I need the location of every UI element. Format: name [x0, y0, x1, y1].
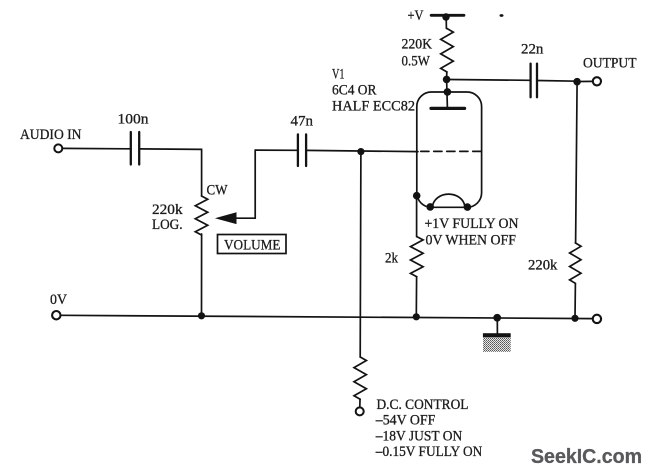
svg-text:–0.15V FULLY ON: –0.15V FULLY ON [375, 444, 483, 460]
resistor R3 2k [411, 237, 424, 277]
ground stem [496, 318, 498, 334]
resistor R4 220k [570, 243, 581, 283]
wire R4 to 0V rail [574, 283, 576, 318]
svg-text:0.5W: 0.5W [402, 54, 431, 70]
wire 0V rail [60, 315, 592, 318]
wire audio-in to C1 [62, 147, 130, 149]
wire grid node to R5 [359, 152, 362, 357]
junction cathode at envelope left [413, 192, 421, 200]
label D.C. CONTROL voltages [375, 397, 483, 460]
power +V bar [431, 14, 464, 17]
svg-text:CW: CW [207, 183, 229, 199]
wire anode node to C3 [450, 79, 530, 82]
svg-text:+V: +V [408, 8, 424, 24]
label +1V FULLY ON / 0V WHEN OFF [425, 216, 519, 249]
junction anode node [443, 76, 451, 84]
grid dashed line of V1 [421, 150, 482, 152]
wire R3 to 0V rail [415, 277, 417, 317]
wire C2 to grid of V1 [306, 150, 418, 151]
wire R2 top lead [445, 17, 447, 29]
svg-text:+1V FULLY ON: +1V FULLY ON [425, 216, 519, 232]
svg-text:AUDIO IN: AUDIO IN [20, 127, 82, 143]
junction pot / 0V rail [198, 312, 205, 319]
ground bar [483, 333, 511, 337]
junction ground / 0V rail [493, 314, 501, 322]
wire cathode to R3 [416, 196, 418, 237]
svg-text:2k: 2k [385, 251, 398, 267]
wire C3 to output node [537, 80, 577, 83]
svg-text:6C4 OR: 6C4 OR [332, 83, 377, 99]
label V1 6C4 OR HALF ECC82 [332, 67, 415, 115]
svg-text:LOG.: LOG. [152, 217, 183, 233]
wire output node to terminal [581, 80, 593, 82]
node AUDIO IN terminal [54, 144, 62, 152]
junction grid wire / DC control branch [357, 148, 364, 155]
svg-text:SeekIC.com: SeekIC.com [531, 446, 642, 468]
wire C1 to pot top [140, 149, 202, 196]
junction +V bar [442, 13, 449, 20]
junction anode lead at envelope [444, 88, 452, 96]
junction output node [573, 78, 581, 86]
svg-text:100n: 100n [118, 112, 150, 128]
svg-text:VOLUME: VOLUME [224, 238, 281, 254]
svg-text:0V: 0V [50, 292, 67, 308]
ink speck [500, 14, 504, 17]
capacitor C2 47n [298, 134, 306, 166]
resistor R5 DC control [354, 357, 366, 399]
resistor R2 220K 0.5W [441, 29, 454, 73]
junction R3 / 0V rail [413, 313, 420, 320]
junction cathode right pin [464, 203, 472, 211]
node DC control terminal [356, 407, 364, 415]
svg-text:V1: V1 [332, 67, 345, 83]
capacitor C3 22n [531, 64, 537, 98]
svg-text:–54V OFF: –54V OFF [375, 413, 435, 429]
svg-text:220k: 220k [152, 202, 183, 218]
wire wiper to 47n branch [234, 150, 255, 218]
tube V1 envelope [417, 92, 482, 207]
svg-text:OUTPUT: OUTPUT [583, 55, 637, 71]
wire R2 bottom lead [446, 72, 448, 79]
node 0V terminal [52, 311, 60, 319]
wire wiper node to C2 [255, 149, 298, 151]
svg-text:47n: 47n [291, 114, 314, 130]
svg-text:220k: 220k [528, 258, 558, 274]
capacitor C1 100n [131, 132, 139, 165]
junction R4 / 0V rail [571, 315, 578, 322]
junction cathode left pin [426, 203, 434, 211]
svg-text:–18V JUST ON: –18V JUST ON [375, 428, 463, 444]
anode plate bar of V1 [431, 107, 465, 110]
wire R5 to terminal [359, 399, 361, 407]
wiper arrow of R1 [217, 213, 236, 224]
ground stipple pad [483, 338, 511, 352]
cathode arc of V1 [433, 194, 465, 207]
svg-text:0V WHEN OFF: 0V WHEN OFF [426, 233, 517, 249]
anode lead of V1 [446, 79, 449, 108]
wire output node to R4 [576, 82, 578, 243]
node right rail terminal [593, 315, 601, 323]
node OUTPUT terminal [593, 77, 601, 85]
svg-text:22n: 22n [521, 42, 544, 58]
svg-text:HALF ECC82: HALF ECC82 [332, 99, 415, 115]
label VOLUME box [218, 235, 287, 254]
svg-text:D.C. CONTROL: D.C. CONTROL [377, 397, 469, 413]
label 220K 0.5W [402, 37, 433, 70]
potentiometer R1 220k LOG [195, 196, 207, 235]
wire pot bottom to 0V rail [201, 234, 203, 316]
svg-text:220K: 220K [402, 37, 433, 53]
